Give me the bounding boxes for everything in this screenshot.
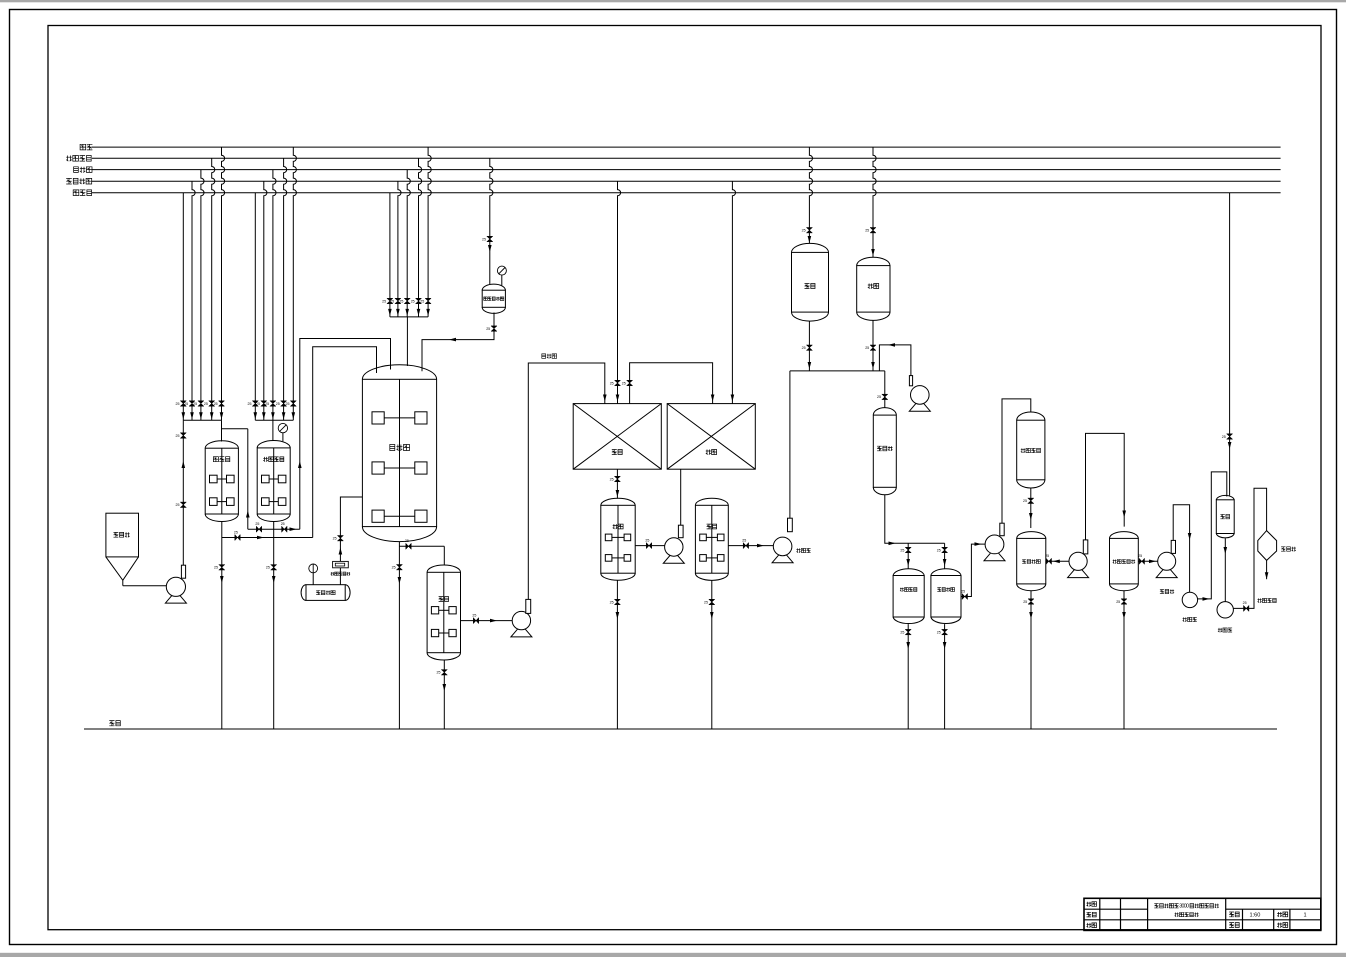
svg-text:25: 25 [204, 402, 208, 406]
arrow on utility-group-1 drop 4 [210, 412, 214, 419]
valve on tank2 drain [271, 565, 277, 570]
arrow down into 料液贮罐 [943, 559, 947, 566]
wire centrifuge2 outlet loop [1233, 488, 1266, 608]
vessel 碱罐 alkali tank [792, 243, 829, 321]
valve 酸罐 feed [870, 228, 876, 233]
valve crystallizer feed [1227, 434, 1233, 439]
label box2 压滤 [706, 450, 717, 455]
label 校核 [1087, 912, 1097, 917]
wire P4 recirc loop [879, 345, 911, 376]
wire utility-group-2 collector [255, 419, 293, 421]
valve box1 bottom [614, 476, 620, 481]
arrow on utility-group-2 drop 2 [262, 412, 266, 419]
valve on transfer line left [256, 526, 261, 532]
wire utility-group-2 drop 1 [254, 193, 256, 421]
valve tank4 outlet [646, 543, 651, 549]
wire utility-group-1 drop 5 [222, 147, 225, 420]
svg-text:25: 25 [704, 600, 708, 604]
valve fermenter drain [396, 565, 402, 570]
wire evaporator to pump P7 [1138, 560, 1157, 562]
label 离心机 1 [1183, 617, 1197, 621]
wire condensate header line [92, 192, 1281, 194]
svg-text:25: 25 [256, 402, 260, 406]
wire crystallizer steam drop [1229, 193, 1231, 496]
svg-text:25: 25 [184, 402, 188, 406]
label 包装车间 [1258, 598, 1277, 602]
valve carbon column bottom [1028, 498, 1034, 503]
arrow down 碱罐 feed [808, 236, 812, 243]
valve on utility-group-2 drop 1 [252, 401, 258, 406]
wire utility-group-2 drop 5 [293, 147, 296, 420]
arrow right tank5 outlet [757, 544, 764, 548]
svg-text:25: 25 [937, 548, 941, 552]
arrow down seed tank drain [220, 576, 224, 583]
wire recycle riser A [247, 429, 249, 529]
label 空气过滤器 [331, 572, 350, 575]
svg-text:25: 25 [176, 434, 180, 438]
gauge on foam trap [309, 564, 318, 573]
valve on utility-group-3 drop 1 [387, 298, 393, 303]
wire recycle tee to riser [222, 428, 248, 430]
label 离交柱 [877, 446, 892, 451]
wire evaporator drain [1123, 591, 1125, 729]
svg-text:25: 25 [900, 548, 904, 552]
wire foam trap gauge stem [312, 573, 314, 585]
wire P2 discharge to box2 bottom [680, 469, 682, 525]
label 比例 [1229, 912, 1239, 917]
arrow down into evaporator [1122, 511, 1126, 518]
wire 碱罐 feed drop [809, 147, 812, 243]
valve 料液贮罐 side outlet [962, 594, 967, 600]
pump P5 [984, 523, 1005, 561]
label 制图 [1087, 902, 1097, 907]
wire 料液贮罐 side outlet [961, 544, 985, 596]
svg-text:25: 25 [1023, 499, 1027, 503]
wire fermenter exhaust [340, 497, 362, 561]
valve 碱罐 feed [806, 228, 812, 233]
arrow down box2 utility [731, 395, 735, 402]
wire hopper outlet down [122, 580, 124, 585]
hopper funnel [106, 557, 139, 580]
arrow left defoamer line [449, 338, 456, 342]
arrow right transfer y537 [257, 536, 264, 540]
valve 碱罐 drain [806, 345, 812, 350]
arrow up exhaust line [339, 548, 343, 555]
svg-text:25: 25 [1222, 435, 1226, 439]
bottom window edge strip [0, 953, 1346, 957]
filter box2 diagonals [667, 404, 755, 470]
valve on utility-group-1 drop 2 [189, 401, 195, 406]
wire crystallizer bottom [1224, 538, 1226, 601]
label 料液贮罐 [937, 588, 954, 592]
svg-text:25: 25 [266, 566, 270, 570]
label condensate header [73, 190, 91, 196]
svg-text:25: 25 [622, 381, 626, 385]
svg-text:25: 25 [405, 539, 409, 543]
label 消泡剂贮罐 [484, 297, 504, 301]
valve on utility-group-3 drop 5 [425, 298, 431, 303]
svg-text:25: 25 [865, 229, 869, 233]
wire defoamer to fermenter [422, 313, 494, 372]
label 离心泵 [796, 548, 810, 552]
valve on utility-group-2 drop 2 [261, 401, 267, 406]
valve on utility-group-3 drop 2 [395, 298, 401, 303]
wire utility-group-1 drop 3 [201, 170, 204, 421]
label tank6 [1022, 560, 1040, 564]
svg-text:25: 25 [382, 299, 386, 303]
wire fermenter to tank3 [399, 545, 444, 547]
arrow on utility-group-2 drop 1 [254, 412, 258, 419]
wire waste water main [84, 728, 1277, 730]
arrow down 酸罐 drain [871, 362, 875, 369]
arrow on utility-group-1 drop 1 [182, 412, 186, 419]
svg-text:25: 25 [1045, 554, 1049, 558]
arrow on utility-group-3 drop 3 [405, 309, 409, 316]
valve 料液贮罐 drain [942, 629, 948, 634]
wire manifold y371 [790, 370, 885, 372]
valve on seed tank drain [219, 565, 225, 570]
label 浓缩液 [1160, 589, 1174, 593]
title block col line c7 [1289, 909, 1291, 930]
valve on exhaust line [337, 536, 343, 541]
svg-text:25: 25 [234, 530, 238, 534]
wire branch to 料液贮罐 [944, 543, 946, 568]
svg-text:25: 25 [281, 522, 285, 526]
label 种子罐 [213, 457, 229, 462]
wire fermenter top feed drop [406, 317, 408, 366]
valve tank5 drain [709, 599, 715, 604]
pump P6 [1068, 540, 1089, 578]
valve evaporator drain [1121, 599, 1127, 604]
arrow right centrifuge1 outlet [1203, 597, 1210, 601]
wire tank2 bottom drop [273, 522, 275, 730]
arrow on utility-group-2 drop 4 [282, 412, 286, 419]
title block col line c5 [1242, 909, 1244, 930]
pressure gauge on tank2 [278, 423, 287, 432]
vessel 离交柱 ion exchange column [873, 408, 896, 495]
title block col line c1 [1099, 898, 1101, 930]
wire utility-group-1 drop 2 [192, 181, 195, 420]
valve on P1 discharge lower [180, 502, 186, 507]
centrifuge2 离心机 [1217, 602, 1233, 618]
label 灭菌搅拌罐 [263, 457, 284, 462]
svg-text:25: 25 [472, 613, 476, 617]
valve on defoamer outlet [491, 326, 497, 331]
arrow down tank5 drain [710, 612, 714, 619]
svg-text:25: 25 [802, 346, 806, 350]
wire utility-group-2 drop 2 [264, 181, 267, 420]
title block row line1 right [1226, 908, 1321, 910]
top window edge strip [0, 0, 1346, 2]
svg-text:25: 25 [193, 402, 197, 406]
filter box2 box [667, 404, 755, 470]
wire 酸罐 drain [872, 320, 874, 371]
wire utility-group-3 drop 2 [398, 181, 401, 317]
air filter box inner [335, 563, 344, 566]
arrow down crystallizer bottom [1224, 547, 1228, 554]
svg-text:25: 25 [645, 538, 649, 542]
valve on utility-group-1 drop 1 [180, 401, 186, 406]
arrow right on transfer line [290, 527, 297, 531]
wire 发酵液 broth line [528, 363, 605, 599]
wire filter to foam trap [339, 568, 341, 585]
vessel 三效浓缩器 evaporator [1110, 532, 1139, 591]
valve box1 utility [615, 380, 621, 385]
label tank4 储罐 [613, 524, 623, 529]
label main title row [1154, 903, 1219, 909]
wire sterilizer-tank feed drop [272, 420, 274, 441]
label 离心机 2 [1218, 628, 1232, 632]
wire tank6 drain [1030, 591, 1032, 729]
title block row line2 [1084, 919, 1321, 921]
svg-text:1:60: 1:60 [1250, 912, 1261, 918]
wire P5 discharge to carbon column [1002, 399, 1031, 523]
vessel 酸罐 acid tank [857, 257, 890, 320]
svg-text:25: 25 [176, 402, 180, 406]
label box1 压滤 [612, 450, 622, 455]
wire riser B to fermenter [300, 339, 391, 530]
svg-text:25: 25 [877, 395, 881, 399]
pump P2 [663, 525, 684, 563]
wire P6 discharge to evaporator [1086, 433, 1125, 540]
svg-text:25: 25 [276, 402, 280, 406]
valve 废液贮罐 drain [905, 629, 911, 634]
valve centrifuge2 outlet rot [1244, 605, 1249, 611]
svg-text:1: 1 [1304, 912, 1307, 918]
wire column bottom run [885, 495, 945, 544]
label DI water header [66, 178, 92, 184]
svg-text:25: 25 [392, 566, 396, 570]
pump P7 [1156, 540, 1177, 577]
label 发酵罐 [390, 445, 410, 451]
label hopper 配料罐 [114, 532, 130, 537]
svg-text:25: 25 [248, 402, 252, 406]
filter box1 box [573, 404, 661, 470]
svg-text:3000: 3000 [1179, 903, 1189, 909]
vessel 储罐 tank3 [427, 565, 460, 660]
arrow down crystallizer feed [1228, 442, 1232, 449]
wire branch to 废液贮罐 [907, 543, 909, 568]
valve on utility-group-2 drop 3 [270, 401, 276, 406]
vessel 储罐 tank4 [601, 498, 635, 580]
valve on utility-group-2 drop 4 [281, 401, 287, 406]
arrow down tank6 drain [1029, 612, 1033, 619]
vessel 灭菌搅拌罐 [257, 441, 290, 522]
vessel 搅拌贮罐 tank6 [1017, 532, 1046, 591]
wire pump-P1 discharge riser [182, 420, 184, 565]
wire box1 to box2 overhead [630, 363, 713, 404]
arrow down tank3 drain [443, 684, 447, 691]
dryer 干燥器 [1258, 531, 1277, 561]
label 学号 [1277, 923, 1288, 928]
wire steam header line [92, 146, 1281, 148]
valve on utility-group-3 drop 4 [416, 298, 422, 303]
arrow down dryer outlet [1265, 572, 1269, 579]
svg-text:25: 25 [411, 299, 415, 303]
valve branch 料液贮罐 [942, 547, 948, 552]
valve tank3 outlet [473, 618, 478, 624]
wire 酸罐 feed drop [873, 147, 876, 257]
valve on defoamer feed [487, 236, 493, 241]
arrow right tank3 outlet [490, 619, 497, 623]
svg-text:25: 25 [286, 402, 290, 406]
arrow up on P1 discharge [182, 461, 186, 468]
wire tank6 to pump P6 [1046, 560, 1069, 562]
arrow down 碱罐 drain [808, 362, 812, 369]
wire dryer outlet [1266, 560, 1268, 579]
label tap water header [74, 167, 92, 173]
svg-text:25: 25 [437, 671, 441, 675]
valve tank5 outlet [743, 543, 748, 549]
label 废液贮罐 [900, 588, 917, 592]
wire tank5 to pump P3 [728, 545, 773, 547]
wire utility-group-3 drop 4 [419, 158, 422, 317]
arrow on utility-group-1 drop 3 [199, 412, 203, 419]
pump P3 离心泵 [772, 518, 793, 563]
svg-text:25: 25 [937, 630, 941, 634]
svg-text:25: 25 [1243, 601, 1247, 605]
svg-text:25: 25 [610, 477, 614, 481]
valve branch 废液贮罐 [905, 547, 911, 552]
wire box1 bottom outlet [616, 469, 618, 498]
arrow on utility-group-3 drop 5 [426, 309, 430, 316]
valve on transfer y537 [235, 535, 240, 541]
label 数量 [1277, 912, 1288, 917]
svg-text:25: 25 [961, 589, 965, 593]
valve tank6 drain [1028, 599, 1034, 604]
wire fermenter bottom drop [398, 542, 400, 729]
wire defoamer gauge stem [501, 275, 503, 285]
valve tank3 drain [441, 670, 447, 675]
label tank5 储罐 [707, 524, 717, 529]
arrow on utility-group-2 drop 5 [292, 412, 296, 419]
arrow down tank2 drain [272, 576, 276, 583]
title block col line c2 [1120, 898, 1122, 930]
arrow down into box2 [711, 395, 715, 402]
arrow on utility-group-3 drop 2 [396, 309, 400, 316]
wire seed-tank feed drop [221, 420, 223, 441]
vessel 料液贮罐 [931, 569, 961, 624]
svg-text:25: 25 [900, 630, 904, 634]
wire P7 discharge to centrifuge1 [1173, 505, 1189, 593]
pump P4 [909, 376, 930, 412]
svg-text:25: 25 [610, 381, 614, 385]
svg-text:25: 25 [333, 537, 337, 541]
wire 碱罐 drain [808, 321, 810, 371]
wire box1 utility drop [618, 181, 621, 403]
wire 废液贮罐 drain [907, 624, 909, 729]
arrow down box1 utility [616, 395, 620, 402]
wire utility-group-3 collector [390, 316, 428, 318]
wire tank4 to pump P2 [635, 545, 664, 547]
svg-text:25: 25 [742, 538, 746, 542]
wire utility-group-1 collector [183, 419, 221, 421]
wire utility-group-1 drop 1 [182, 193, 184, 421]
arrow right into P5 [975, 542, 982, 546]
hopper 配料罐 body [106, 513, 139, 557]
title block col line c6 [1273, 909, 1275, 930]
label 碱罐 [805, 284, 816, 289]
arrow on utility-group-3 drop 4 [417, 309, 421, 316]
arrow down fermenter drain [398, 577, 402, 584]
arrow up on riser B [298, 461, 302, 468]
arrow down carbon column bottom [1029, 513, 1033, 520]
arrow down defoamer feed [488, 245, 492, 252]
label 干燥器 [1281, 547, 1296, 551]
wire centrifuge1 outlet loop [1198, 472, 1227, 599]
title block row line1 left [1084, 908, 1148, 910]
vessel 废液贮罐 [893, 569, 924, 624]
valve on utility-group-2 drop 5 [290, 401, 296, 406]
air filter box outer [333, 561, 349, 567]
wire riser C to fermenter [313, 347, 377, 538]
svg-text:25: 25 [390, 299, 394, 303]
arrow on utility-group-3 drop 1 [388, 309, 392, 316]
wire DI water header line [92, 180, 1281, 182]
valve on utility-group-3 drop 3 [404, 298, 410, 303]
label 废水 [109, 721, 120, 726]
arrow on utility-group-1 drop 5 [220, 412, 224, 419]
svg-text:25: 25 [1138, 554, 1142, 558]
valve on utility-group-1 drop 5 [219, 401, 225, 406]
foam trap 泡沫贮罐 horizontal tank [301, 585, 350, 601]
svg-text:25: 25 [486, 327, 490, 331]
arrow down to centrifuge1 [1188, 533, 1192, 540]
svg-text:25: 25 [610, 600, 614, 604]
svg-text:25: 25 [802, 229, 806, 233]
arrow down 酸罐 feed [871, 249, 875, 256]
wire utility-group-3 drop 5 [428, 147, 431, 317]
arrow down 废液贮罐 drain [906, 642, 910, 649]
wire utility-group-3 drop 1 [389, 193, 391, 317]
valve on box1 overhead [627, 380, 633, 385]
arrow down box1 bottom [616, 490, 620, 497]
filter box1 diagonals [573, 404, 661, 470]
vessel 结晶罐 crystallizer [1216, 495, 1234, 537]
pressure gauge defoamer [497, 266, 506, 275]
wire utility-group-1 drop 4 [212, 158, 215, 420]
valve evaporator outlet [1139, 558, 1144, 564]
label 三效浓缩器 [1113, 560, 1135, 564]
valve on utility-group-1 drop 4 [209, 401, 215, 406]
wire box2 utility drop [732, 181, 735, 403]
wire 料液贮罐 drain [944, 624, 946, 729]
arrow down broth into box1 [603, 395, 607, 402]
arrow left tank6 outlet [1053, 560, 1060, 564]
wire carbon column bottom [1030, 488, 1032, 528]
valve column feed [882, 394, 888, 399]
wire utility-group-3 drop 3 [407, 170, 410, 317]
label compressed air header [66, 156, 91, 162]
svg-text:25: 25 [214, 402, 218, 406]
svg-text:25: 25 [399, 299, 403, 303]
valve on utility-group-1 drop 3 [198, 401, 204, 406]
wire seed tank transfer to fermenter [222, 537, 313, 539]
arrow down evaporator drain [1122, 612, 1126, 619]
vessel 消泡剂贮罐 defoamer tank [482, 284, 505, 313]
label 泡沫贮罐 [316, 591, 335, 595]
svg-text:25: 25 [176, 503, 180, 507]
valve fermenter side outlet [406, 543, 411, 549]
wire tank5 drain [711, 580, 713, 729]
svg-text:25: 25 [482, 237, 486, 241]
label 图号 [1229, 923, 1239, 928]
arrow right column bottom [889, 542, 896, 546]
arrow down tank4 drain [616, 612, 620, 619]
valve on transfer line right [282, 526, 287, 532]
wire tank3 feed drop [443, 546, 445, 565]
arrow up on recycle riser A [246, 511, 250, 518]
